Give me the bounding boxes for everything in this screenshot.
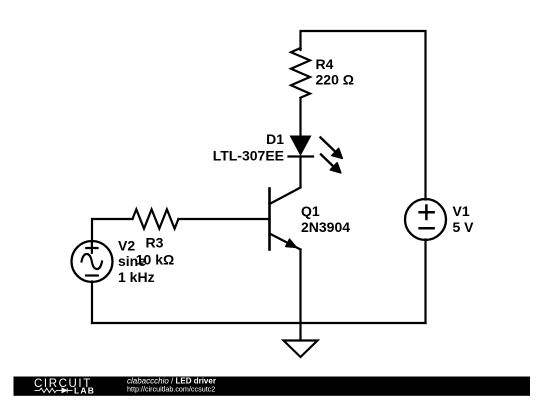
svg-text:220 Ω: 220 Ω xyxy=(316,72,354,88)
footer bar xyxy=(14,377,531,396)
wire V1 bottom to rail xyxy=(424,240,426,324)
svg-text:2N3904: 2N3904 xyxy=(301,219,350,235)
svg-text:1 kHz: 1 kHz xyxy=(118,269,155,285)
footer title text xyxy=(127,377,216,394)
resistor R3 xyxy=(133,209,179,228)
svg-text:LTL-307EE: LTL-307EE xyxy=(213,148,284,164)
svg-text:LAB: LAB xyxy=(74,386,95,396)
ground xyxy=(284,341,318,358)
label Q1 value xyxy=(301,203,350,235)
wire V2 bottom to ground rail xyxy=(91,282,93,324)
svg-text:http://circuitlab.com/ccsutc2: http://circuitlab.com/ccsutc2 xyxy=(127,385,215,394)
wire Q1 emitter to ground xyxy=(299,250,301,341)
wire top from R4 to V1 xyxy=(301,31,426,200)
label D1 value xyxy=(213,131,285,164)
wire from V2 top to R3 xyxy=(92,219,133,242)
wire R4 bottom to D1 anode xyxy=(299,98,301,136)
svg-text:R3: R3 xyxy=(146,235,164,251)
wire D1 cathode to Q1 collector xyxy=(299,157,301,187)
wire bottom rail xyxy=(92,322,426,324)
svg-text:V1: V1 xyxy=(453,203,470,219)
wire base from R3 to Q1 xyxy=(179,218,270,220)
svg-text:Q1: Q1 xyxy=(301,203,320,219)
LED D1 xyxy=(289,136,343,173)
voltage source V2 (sine) xyxy=(72,241,113,282)
label R3 value xyxy=(136,235,174,268)
svg-text:10 kΩ: 10 kΩ xyxy=(136,252,174,268)
svg-text:D1: D1 xyxy=(266,131,284,147)
svg-text:5 V: 5 V xyxy=(453,219,475,235)
label R4 value xyxy=(316,56,354,88)
label V2 value xyxy=(118,238,155,286)
label V1 value xyxy=(453,203,475,235)
resistor R4 xyxy=(291,48,310,98)
svg-text:R4: R4 xyxy=(316,56,334,72)
transistor Q1 xyxy=(270,188,301,250)
svg-text:V2: V2 xyxy=(118,238,135,254)
voltage source V1 (5V DC) xyxy=(405,199,446,240)
CircuitLab logo xyxy=(34,378,95,396)
